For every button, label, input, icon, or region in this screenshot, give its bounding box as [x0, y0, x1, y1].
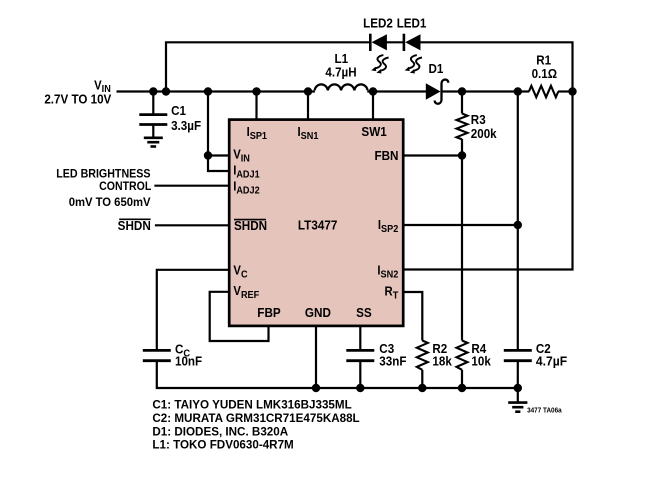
svg-text:LED2: LED2: [363, 16, 393, 30]
resistor R4: [457, 341, 492, 370]
node: VIN source label: [44, 78, 111, 107]
LED labels: [363, 16, 427, 30]
wire: GND pin vertical to ground rail: [315, 326, 317, 388]
LED LED1: [404, 34, 421, 51]
resistor R3: [457, 113, 497, 141]
wire: R3 top stub from output rail: [461, 92, 463, 114]
svg-text:CONTROL: CONTROL: [99, 181, 151, 194]
svg-text:SS: SS: [356, 305, 372, 320]
svg-text:3.3µF: 3.3µF: [171, 118, 201, 132]
svg-text:SHDN: SHDN: [118, 219, 151, 234]
ground: output ground symbol: [508, 403, 527, 412]
wire: LED interconnect between LED2 and LED1: [387, 41, 405, 43]
wire: ISN1 pin vertical: [307, 92, 309, 120]
wire: FBN pin to R3 bottom: [403, 154, 462, 156]
svg-text:FBP: FBP: [257, 305, 280, 320]
wire: SS pin to C3 top: [359, 326, 361, 350]
LED1 light arrows: [405, 55, 422, 73]
svg-text:SW1: SW1: [361, 125, 386, 140]
svg-text:33nF: 33nF: [379, 354, 406, 368]
wire: C2 bottom to ground rail: [517, 362, 519, 389]
svg-text:C2: MURATA GRM31CR71E475KA88L: C2: MURATA GRM31CR71E475KA88L: [152, 411, 359, 425]
wire: output ground stub: [517, 388, 519, 402]
wire: R1 right terminal to right rail: [558, 90, 573, 92]
svg-text:18k: 18k: [432, 354, 452, 368]
wire: R2 bottom stub to ground rail: [421, 370, 423, 388]
wire: output rail from D1 cathode to R1 left: [442, 90, 530, 92]
svg-text:GND: GND: [305, 305, 331, 320]
resistor R2: [417, 341, 452, 370]
wire: ISP2 pin to output node column: [403, 224, 518, 226]
diode D1 (Schottky): [426, 62, 449, 104]
wire: R4 bottom stub to ground rail: [461, 370, 463, 388]
svg-text:200k: 200k: [471, 126, 497, 140]
svg-text:R3: R3: [471, 113, 486, 127]
wire: FBN node down to R4 top: [461, 139, 463, 341]
svg-text:FBN: FBN: [374, 148, 398, 163]
svg-text:4.7µH: 4.7µH: [325, 65, 356, 79]
svg-text:SHDN: SHDN: [234, 219, 267, 234]
capacitor CC: [143, 342, 202, 369]
capacitor C2: [504, 342, 568, 369]
wire: VC pin left and down to CC: [157, 270, 228, 350]
LED2 light arrows: [371, 55, 388, 73]
pin label SHDN (with overline): [234, 219, 267, 234]
wire: VIN input rail (y=91.5) left of L1: [117, 90, 315, 92]
svg-text:LT3477: LT3477: [298, 218, 338, 233]
wire: SW1 pin vertical: [372, 92, 374, 120]
wire: C1 bottom stub to ground symbol: [152, 124, 154, 137]
wire: CC bottom to ground rail corner: [157, 362, 518, 389]
svg-text:R1: R1: [536, 53, 551, 67]
svg-text:0mV TO 650mV: 0mV TO 650mV: [69, 196, 151, 209]
svg-text:L1: TOKO FDV0630-4R7M: L1: TOKO FDV0630-4R7M: [152, 438, 293, 452]
wire: VIN rail down to VIN pin and IADJ1 pin: [208, 92, 228, 172]
wire: output node column down to C2 top: [517, 92, 519, 350]
svg-text:LED BRIGHTNESS: LED BRIGHTNESS: [56, 168, 151, 181]
wire: VIN pin stub: [208, 154, 228, 156]
IC U1 LT3477: [229, 120, 403, 326]
parts list: [152, 397, 359, 451]
svg-text:10k: 10k: [471, 354, 491, 368]
inductor L1: [315, 52, 368, 91]
wire: C3 bottom to ground rail: [359, 362, 361, 389]
LED LED2: [370, 34, 387, 51]
wire: RT pin to R2 top: [403, 292, 422, 341]
node: SHDN input label (with overline): [118, 219, 151, 234]
wire: VREF pin loop to FBP pin: [210, 292, 269, 341]
capacitor C3: [346, 342, 406, 369]
svg-text:10nF: 10nF: [175, 354, 202, 368]
wire: C1 top stub: [152, 92, 154, 115]
wire: LED brightness control to IADJ2 pin: [154, 185, 228, 187]
svg-text:LED1: LED1: [397, 16, 427, 30]
svg-text:3477 TA06a: 3477 TA06a: [527, 407, 562, 414]
wire: vertical from VIN rail up to LED top rail: [166, 42, 370, 91]
capacitor C1: [139, 104, 201, 133]
svg-text:0.1Ω: 0.1Ω: [532, 67, 558, 81]
svg-text:D1: DIODES, INC. B320A: D1: DIODES, INC. B320A: [152, 424, 288, 438]
wire: SHDN input to SHDN pin: [155, 224, 228, 226]
node: junction dots: [149, 87, 577, 392]
wire: top rail from LED1 to right rail corner, and right rail down to ISN2: [403, 42, 572, 269]
resistor R1: [529, 53, 558, 97]
svg-text:2.7V TO 10V: 2.7V TO 10V: [44, 92, 111, 106]
svg-text:C1: TAIYO YUDEN LMK316BJ335ML: C1: TAIYO YUDEN LMK316BJ335ML: [152, 397, 351, 411]
ground: C1 ground symbol: [144, 138, 163, 147]
wire: rail from L1 to D1 anode: [367, 90, 426, 92]
svg-text:4.7µF: 4.7µF: [536, 354, 568, 368]
wire: ISP1 pin vertical: [255, 92, 257, 120]
node: LED brightness control label: [56, 168, 151, 209]
svg-text:C1: C1: [171, 104, 186, 118]
svg-text:D1: D1: [429, 62, 444, 76]
